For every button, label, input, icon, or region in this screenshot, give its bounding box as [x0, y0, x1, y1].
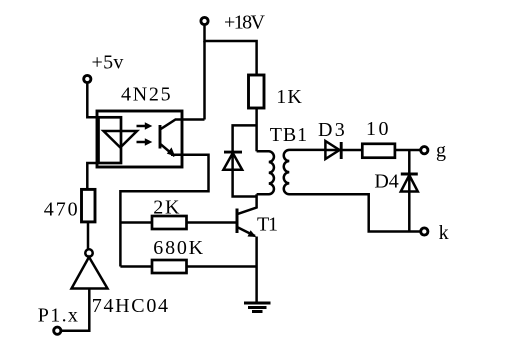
svg-text:+18V: +18V — [224, 11, 266, 33]
svg-text:74HC04: 74HC04 — [92, 295, 168, 317]
svg-text:TB1: TB1 — [270, 124, 307, 146]
svg-text:2K: 2K — [153, 197, 180, 219]
svg-text:P1.x: P1.x — [38, 304, 78, 326]
svg-text:T1: T1 — [257, 214, 278, 236]
svg-text:470: 470 — [44, 198, 78, 220]
svg-text:1K: 1K — [276, 86, 302, 108]
svg-text:4N25: 4N25 — [121, 84, 171, 106]
svg-text:680K: 680K — [153, 237, 203, 259]
svg-text:g: g — [436, 139, 446, 161]
svg-text:D4: D4 — [374, 171, 398, 193]
svg-text:k: k — [439, 222, 449, 244]
svg-text:10: 10 — [366, 118, 389, 140]
svg-text:+5v: +5v — [92, 52, 124, 74]
svg-text:D3: D3 — [318, 119, 345, 141]
